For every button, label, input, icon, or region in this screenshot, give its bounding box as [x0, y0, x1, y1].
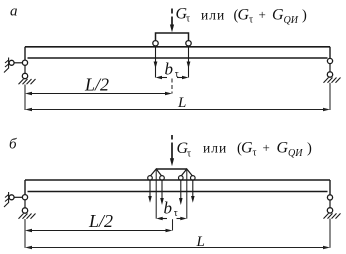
right extension line to dimensions (fig a) [329, 83, 331, 110]
right support post (fig a) [329, 47, 331, 59]
svg-text:G: G [238, 7, 250, 24]
svg-text:τ: τ [174, 208, 178, 219]
spreader bar (fig b) [156, 168, 187, 170]
svg-text:τ: τ [249, 15, 253, 26]
centre line (fig b) [172, 219, 174, 230]
right support pin on beam (fig b) [327, 195, 332, 200]
left support lower link (fig b) [24, 200, 26, 208]
left support pin on beam (fig b) [22, 195, 27, 200]
left support post (fig a) [24, 47, 26, 60]
trolley wheel left (fig a) [153, 41, 158, 46]
left support ground pin (fig a) [22, 73, 27, 78]
svg-text:L/2: L/2 [88, 211, 113, 231]
bogie wheel 1 (fig b) [148, 176, 153, 181]
trolley wheel right (fig a) [186, 41, 191, 46]
svg-text:τ: τ [186, 14, 190, 25]
beam bottom chord (fig a) [28, 57, 328, 59]
dimension label L/2 (fig b) [88, 211, 113, 231]
svg-text:QИ: QИ [288, 148, 303, 159]
right support lower link (fig a) [329, 64, 331, 72]
centre line (fig a) [171, 79, 173, 94]
svg-text:L: L [196, 234, 205, 250]
right extension line to dimensions (fig b) [329, 219, 331, 248]
figure label а [10, 4, 18, 20]
svg-text:L: L [177, 95, 186, 111]
text: или (G_t + G_QИ) (fig a) [201, 7, 307, 27]
left support ground hatching (fig a) [19, 79, 36, 84]
load arrow G (fig b) [170, 135, 174, 166]
bogie centre extension right (fig b) [186, 170, 188, 219]
wheel load arrow 4 (fig b) [191, 180, 195, 202]
dimension line L (fig b) [25, 246, 330, 249]
load label G_t (fig a) [176, 6, 191, 25]
left support horizontal link (fig b) [14, 196, 22, 198]
wheel load arrow 1 (fig b) [148, 180, 152, 202]
bogie right legs (fig b) [181, 169, 193, 176]
dimension label L/2 (fig a) [84, 75, 109, 95]
bogie wheel 3 (fig b) [179, 176, 184, 181]
wheel load arrow 3 (fig b) [179, 180, 183, 205]
bogie wheel 4 (fig b) [191, 176, 196, 181]
svg-text:+: + [263, 140, 270, 155]
svg-text:QИ: QИ [284, 15, 299, 26]
left support lower link (fig a) [24, 65, 26, 73]
load label G_t (fig b) [177, 140, 192, 160]
right support ground hatching (fig a) [324, 78, 341, 83]
dimension label L (fig a) [177, 95, 186, 111]
right support lower link (fig b) [329, 200, 331, 208]
dimension line L/2 (fig a) [25, 92, 172, 95]
beam top chord (fig a) [25, 46, 330, 48]
dimension label L (fig b) [196, 234, 205, 250]
wheel load arrow left (fig a) [154, 46, 158, 78]
left support wall pin (fig a) [9, 60, 14, 65]
svg-text:G: G [272, 7, 284, 24]
wheel load arrow right (fig a) [187, 46, 191, 78]
left support wall with hatching (fig a) [4, 58, 9, 73]
svg-text:G: G [241, 140, 253, 157]
left support pin on beam (fig a) [22, 60, 27, 65]
svg-text:τ: τ [175, 69, 179, 80]
left support ground pin (fig b) [22, 208, 27, 213]
dimension label b_t (fig b) [164, 199, 178, 219]
beam bottom chord (fig b) [28, 191, 328, 193]
left support horizontal link (fig a) [14, 62, 22, 64]
left extension line to dimensions (fig b) [24, 219, 26, 248]
svg-text:или: или [203, 141, 227, 156]
left extension line to dimensions (fig a) [24, 85, 26, 111]
bogie left legs (fig b) [150, 169, 162, 176]
svg-text:): ) [307, 141, 312, 157]
trolley frame bar (fig a) [156, 33, 189, 41]
right support pin on beam (fig a) [327, 58, 332, 63]
text: или (G_t + G_QИ) (fig b) [203, 140, 312, 160]
dimension b_t (fig b) [156, 217, 187, 220]
dimension b_t (fig a) [156, 76, 189, 79]
bogie wheel 2 (fig b) [160, 176, 165, 181]
left support wall with hatching (fig b) [4, 192, 9, 207]
svg-text:b: b [164, 199, 173, 218]
svg-text:б: б [9, 137, 17, 153]
svg-text:или: или [201, 8, 225, 23]
figure label б [9, 137, 17, 153]
svg-text:G: G [277, 140, 289, 157]
bogie centre extension left (fig b) [155, 170, 157, 219]
load arrow G (fig a) [170, 9, 174, 33]
left support ground hatching (fig b) [19, 214, 36, 219]
svg-text:τ: τ [187, 149, 191, 160]
right support ground hatching (fig b) [324, 213, 341, 218]
dimension line L (fig a) [25, 108, 330, 111]
right support ground pin (fig b) [327, 208, 332, 213]
svg-text:L/2: L/2 [84, 75, 109, 95]
left support wall pin (fig b) [9, 195, 14, 200]
wheel load arrow 2 (fig b) [160, 180, 164, 205]
dimension label b_t (fig a) [165, 60, 179, 80]
right support ground pin (fig a) [327, 72, 332, 77]
svg-text:b: b [165, 60, 174, 79]
dimension line L/2 (fig b) [25, 229, 173, 232]
svg-text:+: + [259, 7, 266, 22]
right support post (fig b) [329, 180, 331, 195]
svg-text:τ: τ [253, 148, 257, 159]
svg-text:а: а [10, 4, 18, 20]
svg-text:): ) [302, 8, 307, 24]
beam top chord (fig b) [25, 179, 330, 181]
left support post (fig b) [24, 180, 26, 195]
